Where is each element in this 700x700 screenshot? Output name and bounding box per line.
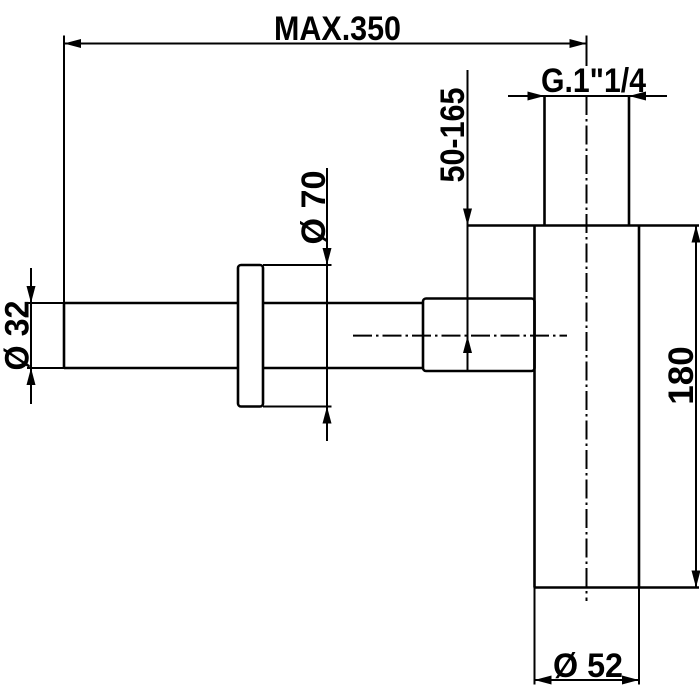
dimension line MAX.350 [64, 43, 587, 45]
extension line right (MAX.350 to body centerline) [586, 36, 588, 67]
dimension line D70 [326, 168, 328, 441]
dimension line D32 [30, 268, 32, 404]
outlet pipe right edge [628, 96, 631, 226]
inlet pipe top edge [64, 302, 423, 305]
wall flange [238, 265, 263, 407]
arrow 50-165 upper [463, 209, 472, 226]
extension line pipe bottom [27, 367, 64, 369]
outlet pipe left edge [543, 96, 546, 226]
dimension line G.1"1/4 [508, 95, 667, 97]
arrow 180 bottom [692, 571, 700, 588]
dimension line 180 [695, 226, 697, 588]
arrow MAX.350 left [64, 39, 81, 48]
svg-text:G.1"1/4: G.1"1/4 [541, 62, 646, 100]
arrow MAX.350 right [570, 39, 587, 48]
inlet pipe left end cap [63, 303, 66, 368]
arrow D70 lower [323, 407, 332, 424]
extension line flange bottom [263, 406, 332, 408]
extension line left (MAX.350 to pipe end) [63, 36, 65, 304]
svg-text:MAX.350: MAX.350 [274, 10, 401, 48]
body left edge [533, 226, 536, 588]
arrow 180 top [692, 226, 700, 243]
body top edge with extensions [468, 224, 700, 227]
extension line flange top [263, 264, 332, 266]
extension line body bottom-left [534, 588, 536, 685]
arrow G right [629, 92, 646, 101]
svg-text:50-165: 50-165 [434, 88, 472, 183]
arrow D52 right [622, 676, 639, 685]
dimension line D52 [535, 679, 640, 681]
centerline horizontal (inlet pipe axis) [353, 335, 567, 337]
body bottom edge with extension [535, 586, 700, 589]
connector nut [423, 299, 535, 372]
body right edge [638, 226, 641, 588]
arrow D52 left [535, 676, 552, 685]
arrow D32 lower [27, 368, 36, 385]
extension line pipe top [27, 302, 64, 304]
extension line body bottom-right [638, 588, 640, 685]
svg-text:180: 180 [662, 346, 700, 404]
arrow D70 upper [323, 248, 332, 265]
inlet pipe bottom edge [64, 367, 423, 370]
arrow 50-165 lower [463, 336, 472, 353]
arrow G left [528, 92, 545, 101]
dimension line 50-165 [467, 70, 469, 370]
arrow D32 upper [27, 286, 36, 303]
centerline vertical (body axis) [586, 96, 588, 601]
